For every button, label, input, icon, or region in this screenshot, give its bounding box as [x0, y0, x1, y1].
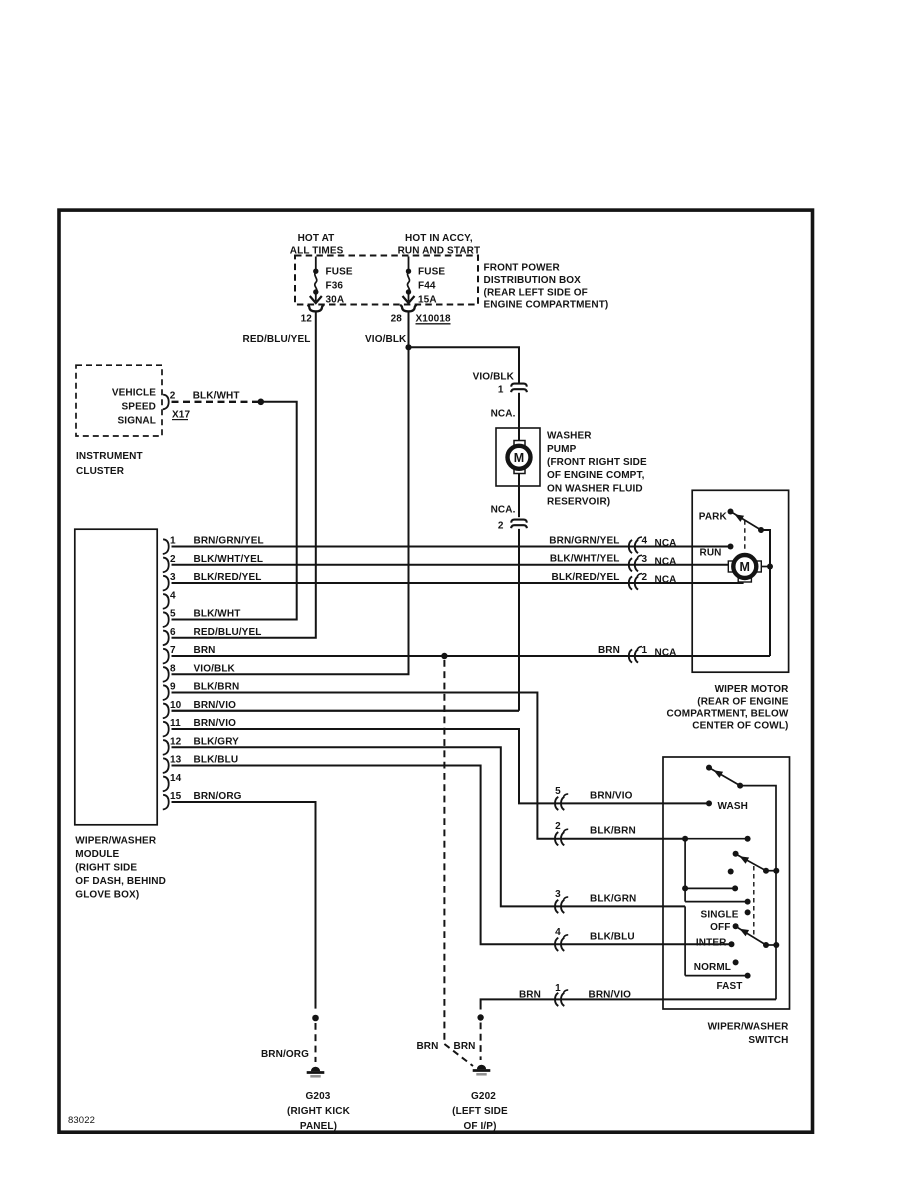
- svg-text:NORML: NORML: [694, 962, 731, 973]
- module pin 11 (BRN/VIO): [163, 722, 169, 737]
- svg-text:BRN: BRN: [598, 645, 620, 656]
- svg-text:BRN/VIO: BRN/VIO: [590, 790, 633, 801]
- svg-text:RUN: RUN: [700, 548, 722, 559]
- svg-text:FRONT POWER: FRONT POWER: [484, 263, 561, 274]
- wiper/washer module box: [75, 529, 157, 825]
- svg-text:M: M: [514, 451, 525, 465]
- svg-text:OF I/P): OF I/P): [463, 1121, 496, 1132]
- svg-text:G202: G202: [471, 1091, 496, 1102]
- junction dot : BRN wire to ground G202 drop: [441, 653, 447, 659]
- svg-text:BLK/BLU: BLK/BLU: [194, 755, 239, 766]
- wire : washer pump connector down to module pin 10 wire: [518, 529, 520, 711]
- module pin 8 (VIO/BLK): [163, 667, 169, 682]
- svg-text:BLK/GRN: BLK/GRN: [590, 893, 636, 904]
- contact FAST and feed from switch pin 3: [745, 973, 751, 979]
- svg-text:BLK/BRN: BLK/BRN: [590, 826, 636, 837]
- wire BRN/VIO : module pin 10 up to washer pump line: [172, 710, 520, 712]
- svg-text:WIPER/WASHER: WIPER/WASHER: [708, 1021, 790, 1032]
- module pin 14: [163, 777, 169, 792]
- svg-text:G203: G203: [306, 1091, 331, 1102]
- svg-text:30A: 30A: [326, 295, 345, 306]
- mechanical link (dashed) between switch wafers: [753, 866, 755, 935]
- connector X10018 pin 12: [307, 305, 323, 312]
- svg-text:SPEED: SPEED: [121, 401, 156, 412]
- module pin 10 (BRN/VIO): [163, 704, 169, 719]
- ground G202: [477, 1065, 486, 1070]
- front power distribution box (dashed): [295, 256, 478, 305]
- svg-text:FUSE: FUSE: [418, 267, 445, 278]
- module pin 12 (BLK/GRY): [163, 740, 169, 755]
- wire BLK/BLU : module pin 13 to switch pin 4: [172, 766, 732, 945]
- svg-text:MODULE: MODULE: [75, 849, 119, 860]
- svg-text:M: M: [740, 560, 751, 574]
- svg-text:PARK: PARK: [699, 512, 728, 523]
- svg-text:2: 2: [498, 521, 504, 532]
- svg-text:DISTRIBUTION BOX: DISTRIBUTION BOX: [484, 275, 582, 286]
- svg-text:HOT AT: HOT AT: [298, 233, 335, 244]
- svg-text:F36: F36: [326, 281, 344, 292]
- wire BLK/BRN : module pin 9 to switch pin 2: [172, 693, 686, 839]
- module pin 3 (BLK/RED/YEL): [163, 576, 169, 591]
- fuse F36 30A: [315, 257, 317, 272]
- wire RED/BLU/YEL : fuse F36 to module pin 6: [172, 312, 316, 638]
- svg-text:RESERVOIR): RESERVOIR): [547, 497, 610, 508]
- svg-text:BRN/VIO: BRN/VIO: [194, 700, 237, 711]
- svg-text:RED/BLU/YEL: RED/BLU/YEL: [243, 334, 311, 345]
- wiper/washer switch box: [663, 757, 790, 1009]
- svg-text:OFF: OFF: [710, 922, 730, 933]
- svg-text:28: 28: [391, 314, 403, 325]
- module pin 7 (BRN): [163, 649, 169, 664]
- svg-text:BLK/WHT: BLK/WHT: [193, 390, 240, 401]
- connector X17 pin 2 on cluster: [163, 395, 169, 410]
- svg-text:BLK/RED/YEL: BLK/RED/YEL: [552, 572, 620, 583]
- svg-text:(RIGHT SIDE: (RIGHT SIDE: [75, 863, 137, 874]
- svg-text:3: 3: [170, 572, 176, 583]
- dashed BRN ground drop from BRN wire junction: [443, 660, 445, 1044]
- svg-text:OF DASH, BEHIND: OF DASH, BEHIND: [75, 876, 166, 887]
- svg-text:6: 6: [170, 627, 176, 638]
- svg-text:BRN: BRN: [416, 1041, 438, 1052]
- svg-text:5: 5: [555, 786, 561, 797]
- svg-text:8: 8: [170, 663, 176, 674]
- svg-text:CLUSTER: CLUSTER: [76, 466, 125, 477]
- svg-text:1: 1: [555, 983, 561, 994]
- connector X10018 pin 28: [400, 305, 416, 312]
- svg-text:BRN/VIO: BRN/VIO: [194, 718, 237, 729]
- junction dot on BLK/WHT wire: [258, 399, 265, 406]
- wash contact WASH: [706, 800, 712, 806]
- svg-text:BRN: BRN: [519, 989, 541, 1000]
- svg-text:7: 7: [170, 645, 176, 656]
- svg-text:NCA.: NCA.: [491, 408, 516, 419]
- svg-text:COMPARTMENT, BELOW: COMPARTMENT, BELOW: [667, 708, 789, 719]
- contact dot (mist): [728, 869, 734, 875]
- wire BRN/VIO : switch pin 1 to rail and ground G202: [481, 999, 776, 1009]
- svg-text:NCA.: NCA.: [491, 504, 516, 515]
- svg-text:BRN: BRN: [454, 1041, 476, 1052]
- wire VIO/BLK : fuse F44 to module pin 8: [172, 312, 409, 675]
- wire BLK/RED/YEL : module pin 3 to wiper motor lower brush (2 NCA): [172, 581, 743, 584]
- svg-text:X17: X17: [172, 410, 190, 421]
- junction on VIO/BLK wire: [405, 344, 411, 350]
- svg-text:BRN/ORG: BRN/ORG: [194, 791, 242, 802]
- svg-text:BLK/WHT/YEL: BLK/WHT/YEL: [194, 554, 264, 565]
- svg-text:BRN/GRN/YEL: BRN/GRN/YEL: [549, 535, 619, 546]
- wiper motor M: [728, 561, 734, 572]
- svg-text:2: 2: [170, 554, 176, 565]
- dashed ground lead to G202: [480, 1023, 482, 1061]
- svg-text:12: 12: [301, 314, 313, 325]
- svg-text:4: 4: [642, 536, 648, 547]
- svg-text:VIO/BLK: VIO/BLK: [365, 334, 407, 345]
- svg-text:(LEFT SIDE: (LEFT SIDE: [452, 1106, 508, 1117]
- junction dot on motor rail: [767, 564, 773, 570]
- module pin 6 (RED/BLU/YEL): [163, 631, 169, 646]
- svg-text:BRN/GRN/YEL: BRN/GRN/YEL: [194, 536, 264, 547]
- svg-text:(REAR OF ENGINE: (REAR OF ENGINE: [697, 696, 788, 707]
- junction dot on ground lead: [477, 1014, 483, 1020]
- svg-text:ENGINE COMPARTMENT): ENGINE COMPARTMENT): [484, 300, 609, 311]
- svg-text:1: 1: [170, 536, 176, 547]
- svg-text:NCA: NCA: [655, 575, 677, 586]
- ground G203: [311, 1067, 320, 1072]
- rotary switch arm (lower): [738, 928, 767, 946]
- svg-text:10: 10: [170, 700, 182, 711]
- svg-text:WASHER: WASHER: [547, 431, 592, 442]
- wire BRN/ORG : module pin 15 to ground G203: [172, 802, 316, 1009]
- wire VIO/BLK : junction to washer pump: [409, 347, 520, 383]
- svg-text:BLK/BLU: BLK/BLU: [590, 931, 635, 942]
- module pin 2 (BLK/WHT/YEL): [163, 558, 169, 573]
- svg-text:BLK/GRY: BLK/GRY: [194, 736, 240, 747]
- svg-text:VIO/BLK: VIO/BLK: [473, 371, 515, 382]
- wire BLK/WHT/YEL : module pin 2 to wiper motor brush (3 NCA): [172, 564, 732, 566]
- svg-text:OF ENGINE COMPT,: OF ENGINE COMPT,: [547, 470, 645, 481]
- svg-text:15A: 15A: [418, 295, 437, 306]
- dashed ground lead to G203: [315, 1023, 317, 1062]
- module pin 5 (BLK/WHT): [163, 612, 169, 627]
- svg-text:1: 1: [498, 385, 504, 396]
- module pin 13 (BLK/BLU): [163, 758, 169, 773]
- svg-text:RED/BLU/YEL: RED/BLU/YEL: [194, 627, 262, 638]
- park switch arm: [731, 512, 762, 531]
- svg-text:11: 11: [170, 718, 181, 729]
- svg-text:3: 3: [642, 554, 648, 565]
- svg-text:SINGLE: SINGLE: [701, 910, 739, 921]
- switch pin 2 node wiring: [682, 836, 688, 842]
- module pin 1 (BRN/GRN/YEL): [163, 539, 169, 554]
- wire BRN : module pin 7 to wiper motor (1 NCA) with ground tap: [172, 655, 771, 657]
- svg-text:WIPER/WASHER: WIPER/WASHER: [75, 836, 157, 847]
- svg-text:F44: F44: [418, 281, 436, 292]
- svg-text:SWITCH: SWITCH: [748, 1035, 788, 1046]
- wire : motor right brush to rail: [761, 566, 770, 568]
- svg-text:SIGNAL: SIGNAL: [118, 415, 157, 426]
- wire BLK/WHT : cluster to module pin 5: [172, 401, 261, 403]
- svg-text:(FRONT RIGHT SIDE: (FRONT RIGHT SIDE: [547, 457, 647, 468]
- svg-text:INSTRUMENT: INSTRUMENT: [76, 451, 143, 462]
- svg-text:(RIGHT KICK: (RIGHT KICK: [287, 1106, 351, 1117]
- svg-text:2: 2: [642, 572, 648, 583]
- junction dot on BRN/ORG ground wire: [312, 1015, 319, 1022]
- wire BRN/GRN/YEL : module pin 1 to wiper motor RUN (4 NCA): [172, 546, 731, 548]
- svg-text:INTER: INTER: [696, 938, 727, 949]
- module pin 4: [163, 594, 169, 609]
- svg-text:9: 9: [170, 682, 176, 693]
- svg-text:WIPER MOTOR: WIPER MOTOR: [715, 684, 790, 695]
- svg-text:NCA: NCA: [655, 538, 677, 549]
- wire BLK/GRY : module pin 12 to switch pin 3 (BLK/GRN): [172, 747, 686, 906]
- wire NCA : washer pump to connector pin 2: [518, 473, 520, 517]
- rotary switch arm (upper): [733, 851, 739, 857]
- instrument cluster box (dashed): [76, 365, 162, 436]
- wash switch arm: [706, 765, 712, 771]
- svg-text:BLK/BRN: BLK/BRN: [194, 682, 240, 693]
- svg-text:5: 5: [170, 609, 176, 620]
- module pin 15 (BRN/ORG): [163, 795, 169, 810]
- svg-text:2: 2: [555, 821, 561, 832]
- svg-text:ON WASHER FLUID: ON WASHER FLUID: [547, 483, 643, 494]
- svg-text:FUSE: FUSE: [326, 267, 353, 278]
- mechanical link (dashed) park switch to motor: [744, 520, 746, 552]
- svg-text:15: 15: [170, 791, 182, 802]
- svg-text:VEHICLE: VEHICLE: [112, 387, 156, 398]
- connector pin 2 at washer pump (NCA): [511, 520, 527, 523]
- svg-text:13: 13: [170, 755, 182, 766]
- svg-text:BRN/ORG: BRN/ORG: [261, 1049, 309, 1060]
- svg-text:FAST: FAST: [716, 981, 742, 992]
- svg-text:WASH: WASH: [718, 801, 748, 812]
- switch inner rail: [740, 786, 776, 1000]
- svg-text:BLK/WHT: BLK/WHT: [194, 609, 241, 620]
- svg-text:14: 14: [170, 773, 182, 784]
- svg-text:PANEL): PANEL): [300, 1121, 337, 1132]
- svg-text:1: 1: [642, 645, 648, 656]
- svg-text:(REAR LEFT SIDE OF: (REAR LEFT SIDE OF: [484, 287, 588, 298]
- svg-text:VIO/BLK: VIO/BLK: [194, 663, 236, 674]
- connector pin 1 at washer pump (NCA): [511, 384, 527, 387]
- svg-text:3: 3: [555, 889, 561, 900]
- svg-text:4: 4: [555, 927, 561, 938]
- svg-text:X10018: X10018: [416, 314, 452, 325]
- svg-text:BRN/VIO: BRN/VIO: [589, 989, 632, 1000]
- wiper motor box: [692, 490, 788, 672]
- svg-text:2: 2: [170, 390, 176, 401]
- svg-text:HOT IN ACCY,: HOT IN ACCY,: [405, 233, 473, 244]
- wire BRN/VIO : module pin 11 to wash switch contact (5): [172, 729, 710, 803]
- wire : park arm to motor rail: [761, 530, 770, 656]
- svg-text:BLK/WHT/YEL: BLK/WHT/YEL: [550, 554, 620, 565]
- svg-text:4: 4: [170, 590, 176, 601]
- svg-text:NCA: NCA: [655, 556, 677, 567]
- svg-text:BRN: BRN: [194, 645, 216, 656]
- svg-text:BLK/RED/YEL: BLK/RED/YEL: [194, 572, 262, 583]
- module pin 9 (BLK/BRN): [163, 685, 169, 700]
- svg-text:PUMP: PUMP: [547, 444, 577, 455]
- svg-text:12: 12: [170, 736, 182, 747]
- washer pump motor M: [496, 428, 540, 486]
- svg-text:83022: 83022: [68, 1115, 95, 1126]
- svg-text:NCA: NCA: [655, 648, 677, 659]
- svg-text:GLOVE BOX): GLOVE BOX): [75, 890, 139, 901]
- fuse F44 15A: [408, 257, 410, 272]
- svg-text:CENTER OF COWL): CENTER OF COWL): [692, 721, 788, 732]
- wire NCA : connector to washer pump: [518, 393, 520, 442]
